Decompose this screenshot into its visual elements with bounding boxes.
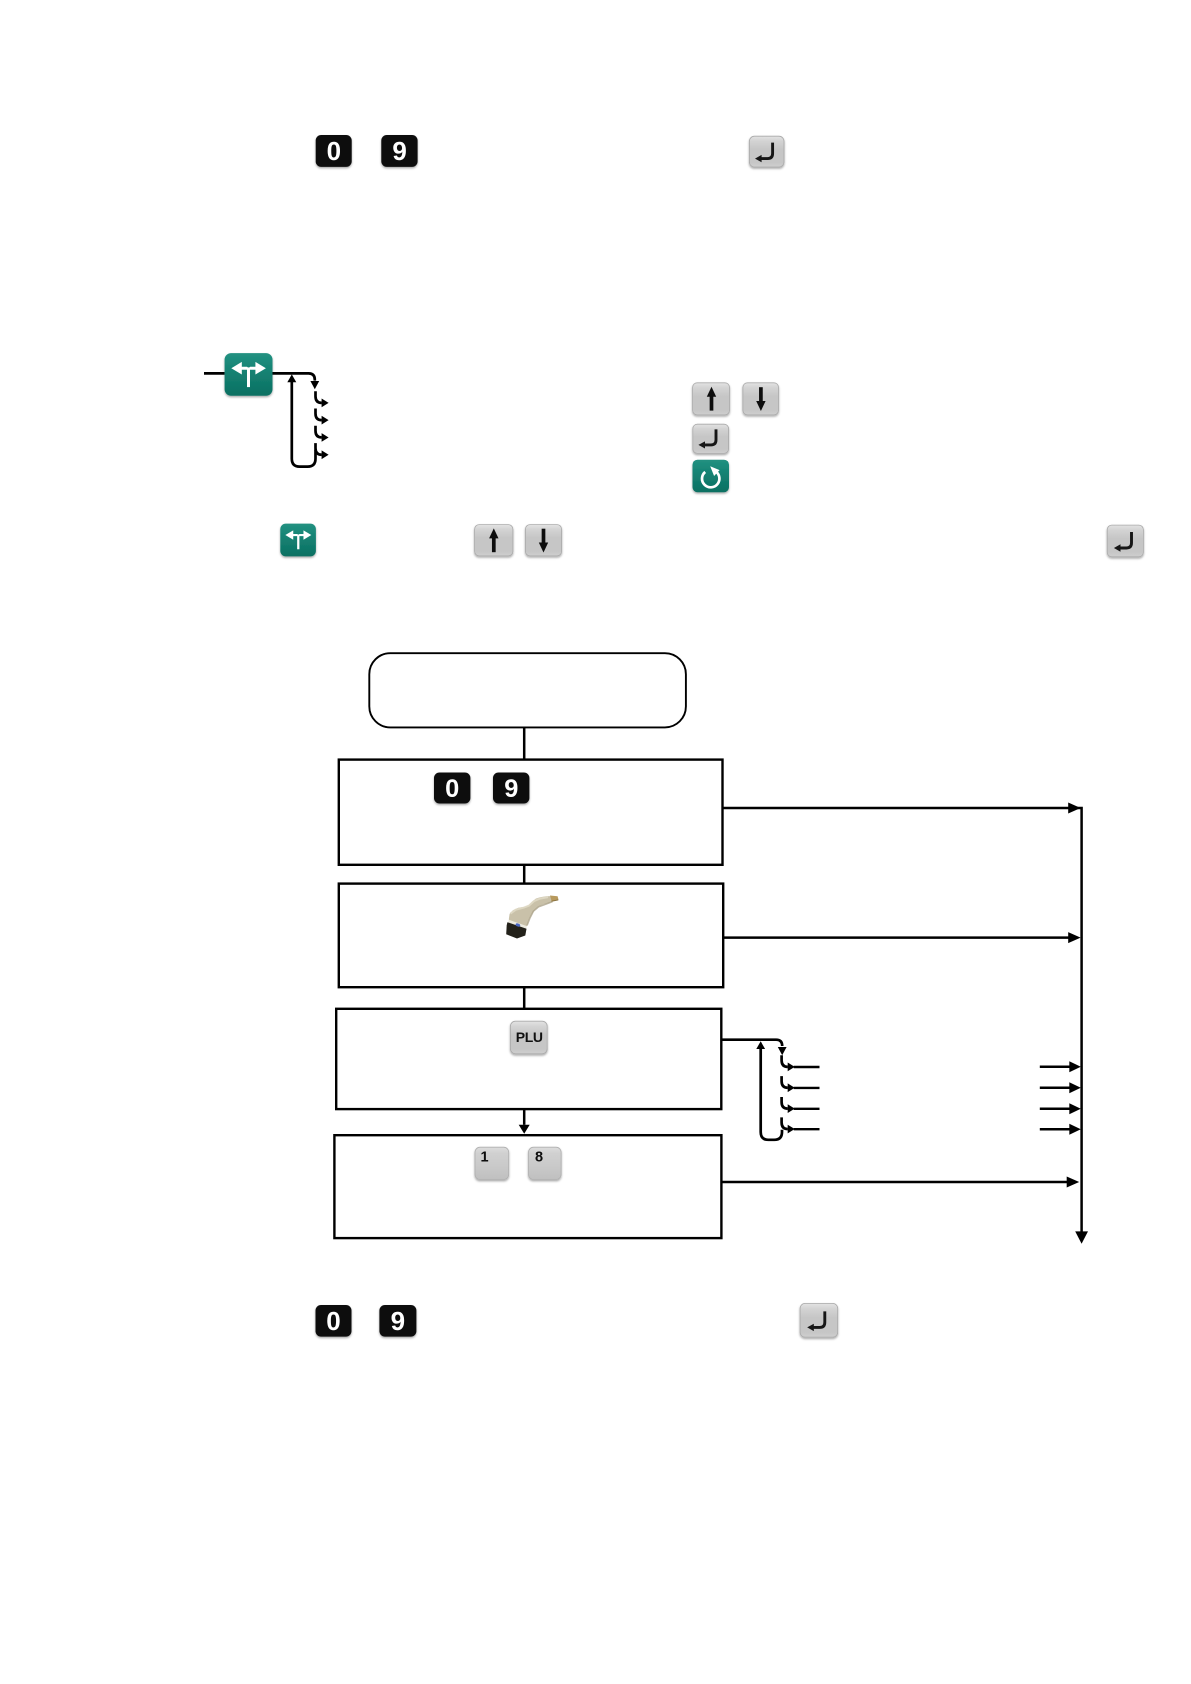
svg-text:0: 0 [327,136,341,166]
svg-text:0: 0 [326,1306,340,1336]
svg-text:8: 8 [535,1150,543,1166]
svg-text:0: 0 [445,775,459,803]
svg-text:9: 9 [392,136,406,166]
svg-text:9: 9 [391,1306,405,1336]
svg-text:9: 9 [504,775,518,803]
svg-text:PLU: PLU [516,1029,543,1045]
svg-text:1: 1 [481,1150,489,1166]
